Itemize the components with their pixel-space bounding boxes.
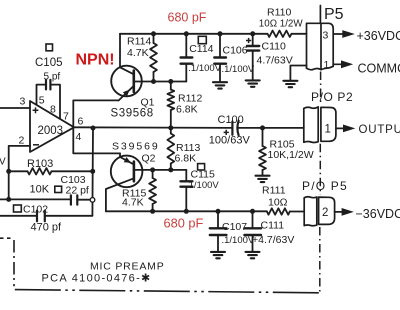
svg-text:.1/100V: .1/100V	[222, 235, 255, 246]
svg-text:Q2: Q2	[142, 153, 156, 165]
svg-text:5: 5	[39, 95, 45, 107]
svg-text:6V: 6V	[0, 157, 6, 168]
svg-text:10Ω: 10Ω	[268, 197, 288, 209]
svg-text:470 pf: 470 pf	[31, 222, 63, 234]
svg-text:4.7K: 4.7K	[122, 196, 144, 208]
svg-text:6.8K: 6.8K	[175, 153, 197, 165]
svg-text:C114: C114	[189, 43, 213, 55]
svg-text:2: 2	[322, 207, 328, 219]
svg-text:+4.7/63V: +4.7/63V	[252, 234, 294, 246]
svg-text:22 pf: 22 pf	[66, 185, 89, 197]
svg-text:.1/100V: .1/100V	[188, 63, 221, 74]
svg-text:10K: 10K	[30, 184, 50, 196]
svg-text:C102: C102	[23, 204, 48, 216]
svg-text:680 pF: 680 pF	[164, 216, 204, 231]
svg-text:3: 3	[323, 30, 329, 42]
svg-text:1: 1	[324, 59, 330, 71]
svg-text:C100: C100	[218, 114, 244, 126]
svg-text:R114: R114	[127, 36, 151, 48]
svg-text:100/63V: 100/63V	[209, 135, 251, 147]
svg-text:680 pF: 680 pF	[168, 11, 207, 25]
svg-text:−36VDC: −36VDC	[356, 207, 400, 221]
svg-text:C111: C111	[261, 220, 285, 232]
svg-text:6.8K: 6.8K	[176, 104, 198, 116]
svg-text:R111: R111	[262, 185, 286, 197]
svg-text:R103: R103	[27, 158, 53, 170]
svg-text:MIC PREAMP: MIC PREAMP	[90, 261, 165, 273]
svg-text:C106: C106	[223, 45, 248, 57]
svg-text:2: 2	[19, 135, 25, 147]
svg-text:COMMON: COMMON	[358, 62, 400, 76]
svg-text:C105: C105	[35, 57, 63, 69]
svg-text:C115: C115	[191, 169, 215, 181]
svg-text:4.7/63V: 4.7/63V	[257, 55, 293, 67]
svg-text:S39568: S39568	[111, 108, 154, 120]
svg-text:2003: 2003	[38, 125, 64, 137]
svg-text:6: 6	[78, 116, 84, 128]
svg-text:8: 8	[50, 104, 56, 116]
svg-text:OUTPUT: OUTPUT	[359, 124, 400, 136]
svg-text:P/O P2: P/O P2	[311, 90, 353, 104]
svg-text:5 pf: 5 pf	[44, 72, 61, 83]
svg-text:4: 4	[76, 131, 82, 143]
svg-text:4.7K: 4.7K	[127, 47, 149, 59]
svg-text:C107: C107	[222, 221, 247, 233]
svg-text:10Ω 1/2W: 10Ω 1/2W	[259, 19, 304, 30]
svg-text:.1/100V: .1/100V	[222, 64, 255, 75]
svg-text:7: 7	[63, 111, 69, 123]
svg-text:C110: C110	[262, 41, 286, 53]
svg-text:NPN!: NPN!	[76, 52, 115, 69]
svg-text:PCA 4100-0476-✱: PCA 4100-0476-✱	[42, 273, 152, 285]
svg-text:R110: R110	[267, 7, 291, 19]
svg-text:1: 1	[325, 124, 331, 136]
svg-text:P5: P5	[324, 6, 344, 23]
svg-text:+36VDC: +36VDC	[357, 29, 400, 43]
svg-text:S39569: S39569	[112, 141, 160, 153]
svg-text:P/O P5: P/O P5	[302, 179, 348, 193]
svg-text:.1/100V: .1/100V	[186, 180, 219, 191]
svg-text:10K,1/2W: 10K,1/2W	[268, 149, 314, 161]
svg-text:3: 3	[20, 96, 26, 108]
